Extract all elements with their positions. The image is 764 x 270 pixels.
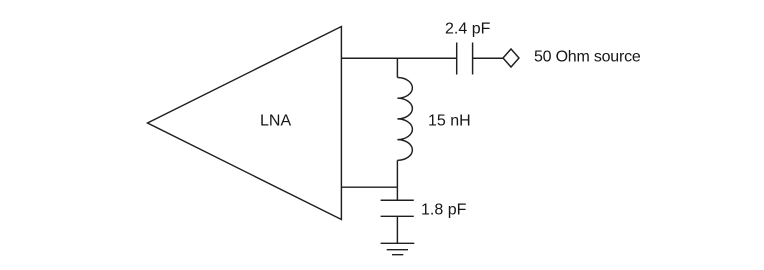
svg-text:15 nH: 15 nH — [428, 113, 471, 130]
capacitor C2 1.8 pF (plates) — [381, 200, 414, 216]
wire (junction down to C2) — [396, 187, 398, 200]
wire (inductor bottom stub to bottom wire junction) — [396, 160, 398, 187]
ground — [381, 243, 415, 254]
wire (inductor top stub from top wire junction) — [396, 58, 398, 77]
svg-text:1.8 pF: 1.8 pF — [421, 202, 467, 219]
capacitor C1 2.4 pF (plates) — [457, 43, 473, 75]
svg-text:50 Ohm source: 50 Ohm source — [534, 48, 641, 65]
node: 50 Ohm source terminal (diamond) — [503, 49, 519, 67]
op-amp U1 (LNA triangle) — [148, 27, 342, 220]
wire (C1 to source terminal) — [473, 57, 503, 59]
inductor L1 15 nH (4 loops) — [397, 78, 412, 161]
svg-text:LNA: LNA — [260, 113, 291, 130]
svg-text:2.4 pF: 2.4 pF — [445, 21, 491, 38]
wire (bottom feedback, triangle to junction) — [341, 186, 397, 188]
wire (top output, triangle to C1) — [341, 57, 456, 59]
wire (C2 to ground) — [396, 216, 398, 243]
